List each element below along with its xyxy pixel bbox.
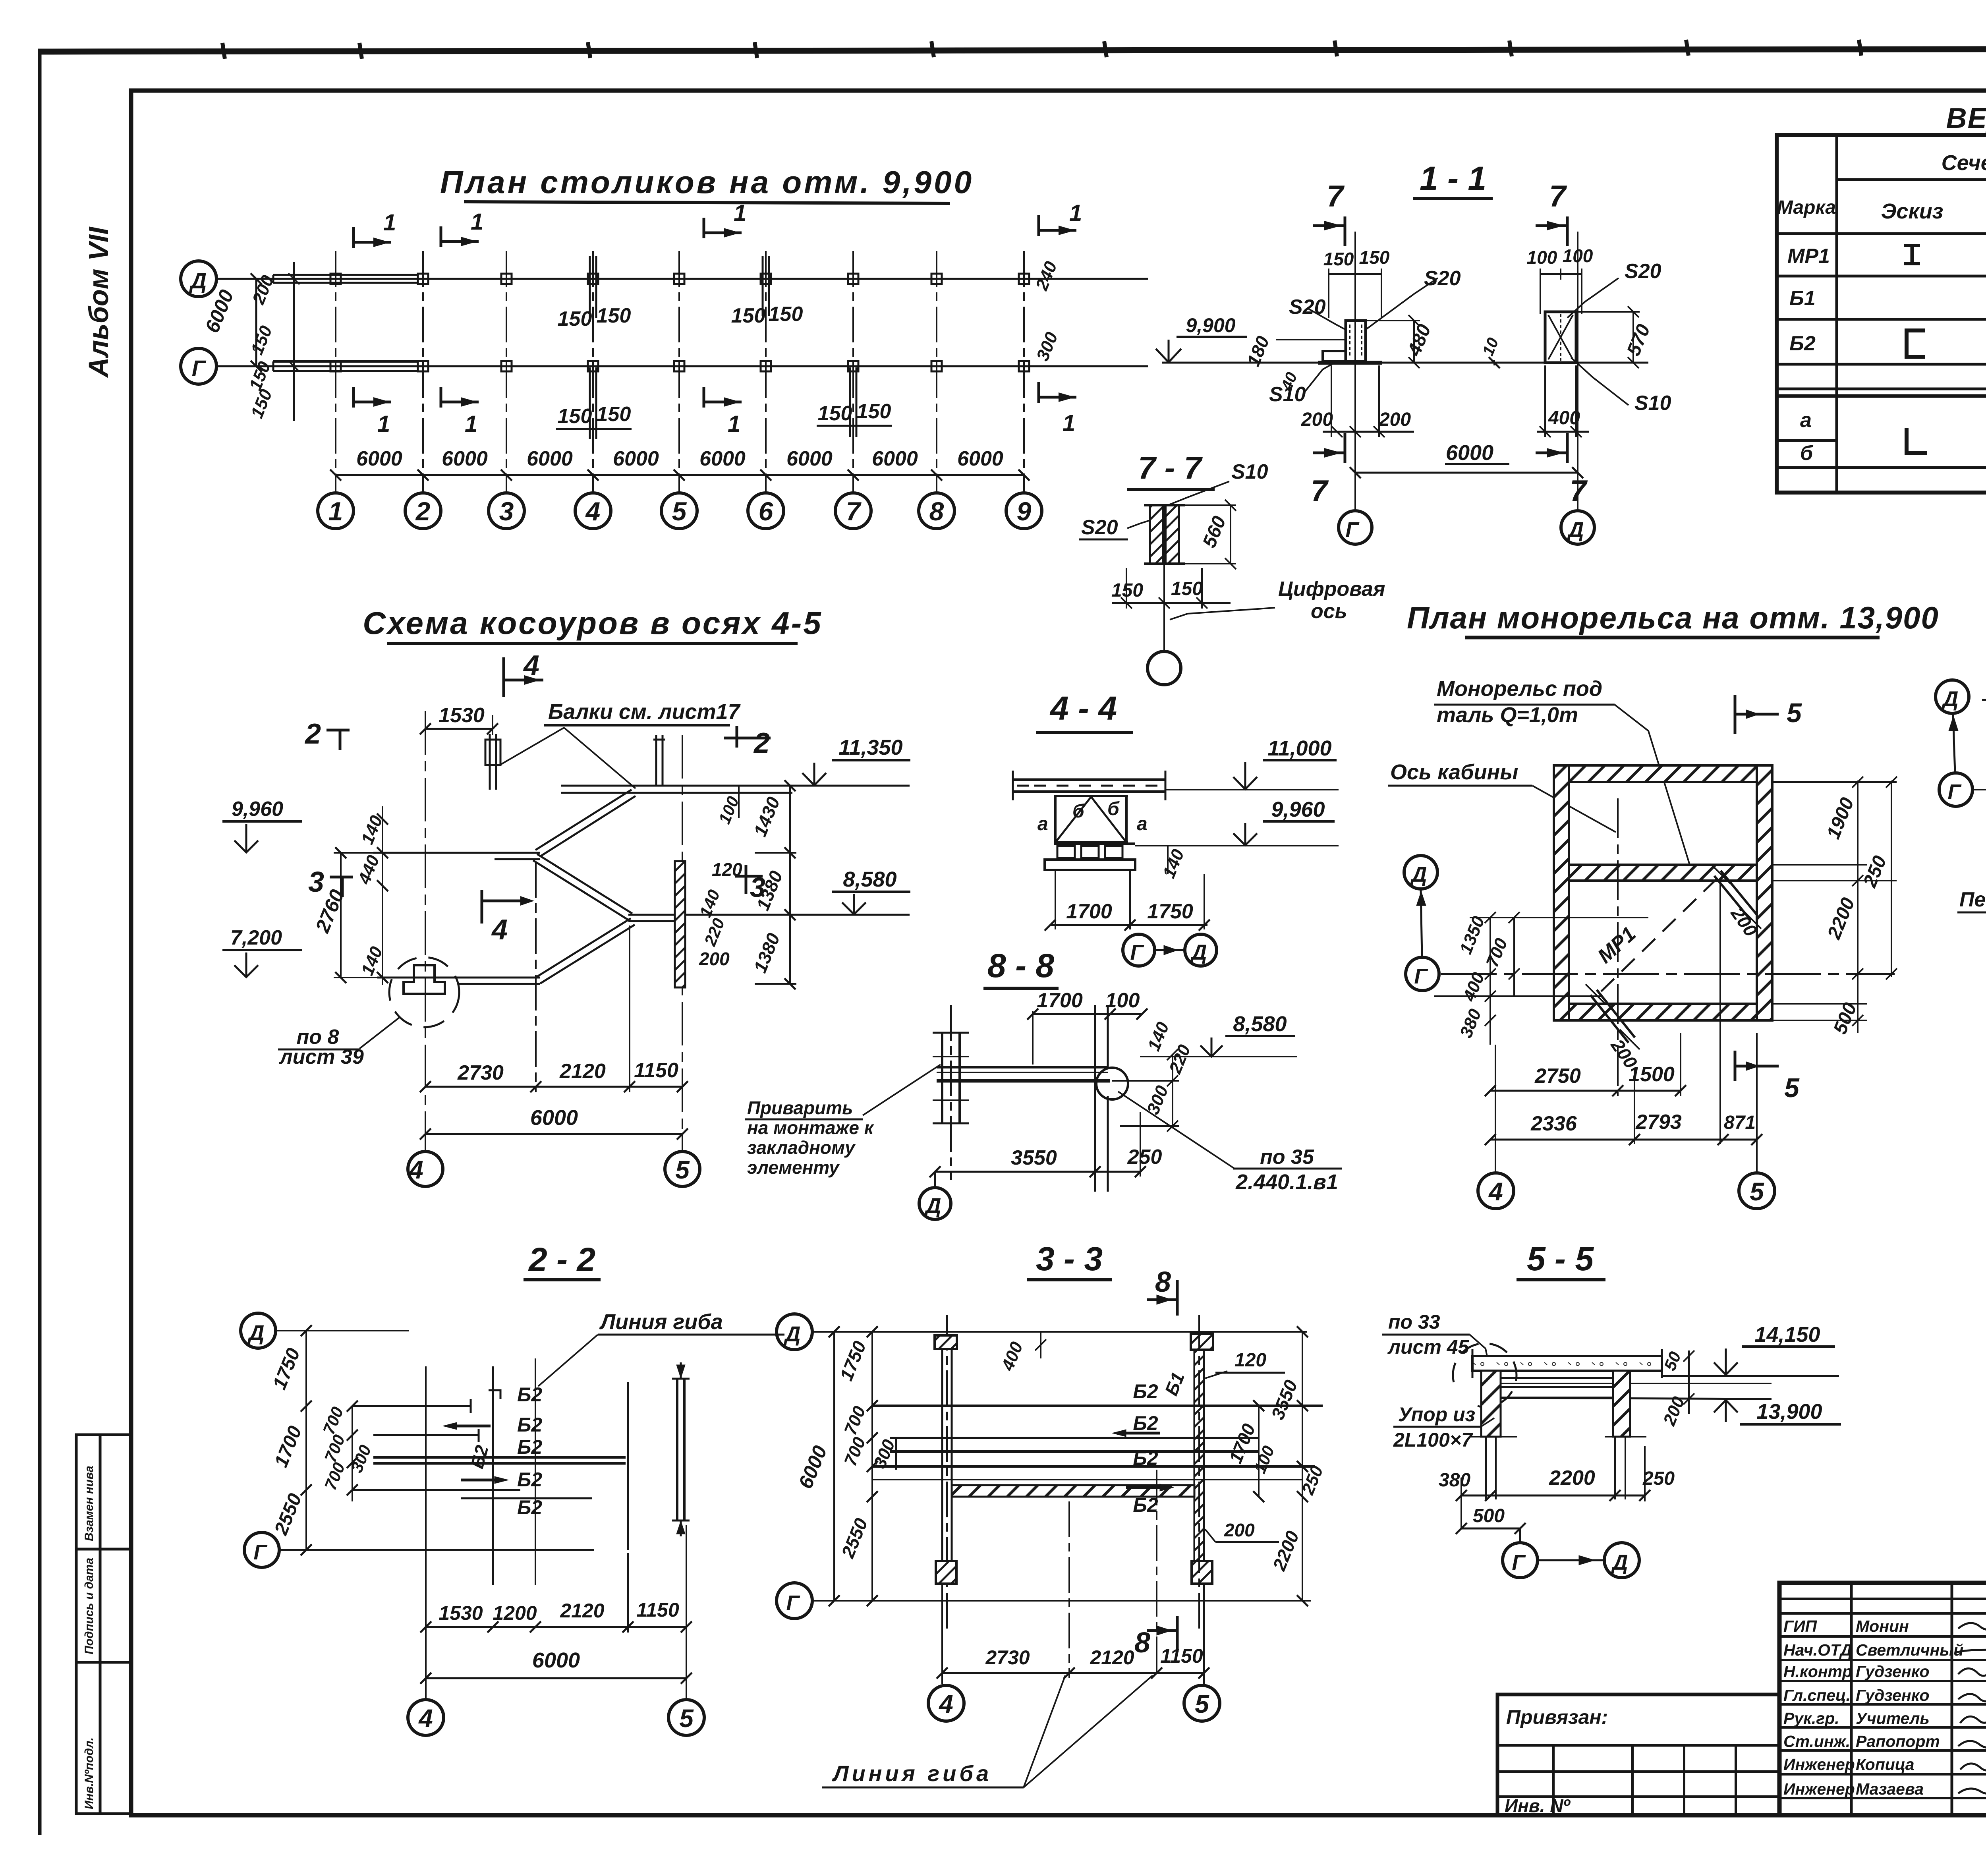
svg-text:3: 3 — [308, 866, 324, 898]
top dims 1700 100 — [1033, 1013, 1142, 1015]
svg-text:Д: Д — [1942, 687, 1959, 711]
svg-text:1: 1 — [383, 210, 396, 236]
svg-text:б: б — [1800, 442, 1814, 465]
svg-text:7: 7 — [846, 497, 862, 526]
svg-text:1750: 1750 — [1147, 900, 1193, 923]
angle glyph rows a/b — [1907, 428, 1927, 453]
leaders S20/S10 G — [1307, 308, 1346, 330]
svg-text:120: 120 — [1234, 1350, 1266, 1371]
flag 4 top — [502, 657, 505, 697]
svg-text:4: 4 — [938, 1690, 953, 1718]
svg-text:План монорельса на отм. 13,900: План монорельса на отм. 13,900 — [1407, 600, 1939, 635]
svg-text:150: 150 — [597, 403, 631, 426]
G column section — [1346, 321, 1366, 361]
svg-text:S20: S20 — [1625, 260, 1661, 283]
bottom dim row 2 — [1490, 1139, 1757, 1141]
svg-text:2L100×7: 2L100×7 — [1393, 1429, 1473, 1451]
svg-text:Д: Д — [924, 1194, 941, 1218]
left stamp boxes — [76, 1435, 131, 1814]
180 dim left of G col — [1276, 339, 1346, 340]
landing 9960 — [373, 852, 540, 854]
left dim chain — [871, 1332, 873, 1601]
elevation 11000 — [1263, 759, 1337, 761]
8 cut flag bottom — [1176, 1616, 1179, 1652]
small dim ticks left of col1 — [293, 262, 295, 421]
svg-text:200: 200 — [1224, 1520, 1255, 1540]
svg-text:Линия гиба: Линия гиба — [832, 1761, 992, 1786]
bottom dims — [426, 1626, 686, 1628]
col G circle — [1339, 511, 1372, 544]
svg-text:2120: 2120 — [1090, 1646, 1134, 1669]
axis D bubble — [934, 1172, 936, 1187]
privyazan block — [1497, 1694, 1779, 1815]
left column — [941, 1349, 943, 1584]
svg-text:11,350: 11,350 — [838, 736, 902, 759]
svg-text:5: 5 — [1750, 1177, 1764, 1206]
bottom dims — [425, 1086, 682, 1088]
petlya leader — [1957, 912, 1986, 914]
right dims 1700/100 — [1258, 1406, 1260, 1497]
200/200 dim under G col — [1323, 431, 1414, 433]
right dim chain 3550/250/2200 — [1302, 1332, 1303, 1601]
elevation 13,900 — [1740, 1423, 1841, 1426]
left dim chain 140/440/140 — [382, 806, 383, 985]
horizontal extension lines right — [1772, 781, 1897, 783]
svg-text:5: 5 — [1787, 698, 1802, 728]
beam B2 no4 — [352, 1489, 520, 1491]
svg-text:6000: 6000 — [613, 447, 659, 470]
svg-text:1530: 1530 — [439, 704, 485, 727]
shaft walls hatched — [1554, 765, 1772, 782]
axis 5 bubble — [665, 1151, 700, 1186]
svg-text:Светличный: Светличный — [1856, 1641, 1963, 1659]
axis G bubble + line — [244, 1532, 279, 1567]
svg-text:150: 150 — [1323, 249, 1354, 269]
stringer diagonal lower — [536, 918, 631, 977]
brace at col7 axis G — [849, 367, 851, 437]
svg-text:Г: Г — [192, 355, 207, 381]
axis5 column hatched — [675, 861, 685, 987]
svg-text:8: 8 — [1155, 1266, 1171, 1298]
svg-text:400: 400 — [1548, 408, 1580, 429]
right dim chain — [789, 786, 791, 984]
label monorel pod tal — [1434, 704, 1615, 706]
svg-text:4 - 4: 4 - 4 — [1049, 690, 1117, 727]
svg-text:4: 4 — [408, 1155, 423, 1184]
axis 4 vertical — [425, 711, 426, 1151]
svg-text:7: 7 — [1570, 474, 1588, 508]
svg-text:8,580: 8,580 — [1233, 1012, 1287, 1036]
dims above G col — [1329, 273, 1381, 275]
structure verticals — [425, 1366, 427, 1585]
400 dim at left col — [1040, 1332, 1041, 1358]
svg-text:Инженер: Инженер — [1783, 1755, 1855, 1774]
svg-text:2200: 2200 — [1549, 1466, 1595, 1490]
svg-text:2: 2 — [753, 727, 770, 759]
svg-text:Д: Д — [1410, 863, 1427, 887]
slab with concrete — [1472, 1356, 1662, 1371]
svg-text:б: б — [1107, 798, 1120, 819]
top landing beam — [561, 785, 910, 787]
axis 4 bubble — [1495, 1045, 1496, 1173]
svg-text:7,200: 7,200 — [230, 926, 282, 949]
150 150 dim bottom — [1112, 602, 1231, 604]
svg-text:1700: 1700 — [1066, 900, 1112, 923]
svg-text:1150: 1150 — [634, 1059, 678, 1082]
svg-text:ВЕДОМОСТЬ ЭЛЕМЕНТОВ: ВЕДОМОСТЬ ЭЛЕМЕНТОВ — [1946, 102, 1986, 134]
svg-text:2120: 2120 — [560, 1600, 604, 1622]
hanger rod right — [655, 735, 657, 786]
leader to po35 — [1118, 1092, 1234, 1169]
main floor line — [1162, 362, 1648, 364]
right column B1 — [1194, 1350, 1196, 1584]
svg-text:а: а — [1037, 813, 1048, 835]
svg-text:элементу: элементу — [747, 1157, 840, 1178]
liniya giba leaders — [822, 1787, 1024, 1789]
monorail beam stub bottom left (double) — [1597, 990, 1635, 1037]
upor leader — [1393, 1426, 1481, 1428]
dim 1530 — [425, 728, 493, 730]
480 dim right of G col — [1413, 321, 1415, 363]
svg-text:6: 6 — [759, 497, 774, 526]
svg-text:Инв.Nºподл.: Инв.Nºподл. — [83, 1737, 96, 1809]
svg-text:Д: Д — [1567, 518, 1584, 542]
svg-text:Б2: Б2 — [517, 1383, 542, 1406]
beam below slab — [1486, 1377, 1628, 1379]
svg-text:Г: Г — [1947, 780, 1962, 804]
svg-text:Н.контр: Н.контр — [1783, 1662, 1852, 1681]
section 1-1 — [1156, 199, 1648, 544]
svg-text:250: 250 — [1127, 1146, 1162, 1169]
svg-text:Ось кабины: Ось кабины — [1390, 760, 1518, 784]
svg-text:ось: ось — [1311, 600, 1347, 623]
stringer diagonal middle — [537, 854, 632, 914]
svg-text:7: 7 — [1549, 180, 1567, 213]
elevation 8580 — [832, 891, 910, 893]
svg-text:Г: Г — [1130, 941, 1144, 964]
svg-text:9,960: 9,960 — [1271, 798, 1325, 821]
140 dim — [1167, 846, 1169, 874]
400 dim under D col — [1537, 431, 1589, 433]
svg-text:Д: Д — [784, 1322, 801, 1346]
svg-text:7: 7 — [1327, 180, 1345, 213]
MP1 dashed diagonal — [1601, 874, 1722, 991]
svg-text:1150: 1150 — [636, 1599, 679, 1621]
svg-text:4: 4 — [585, 497, 601, 526]
svg-text:6000: 6000 — [442, 447, 488, 470]
svg-text:2: 2 — [415, 497, 431, 526]
svg-text:Марка: Марка — [1777, 197, 1836, 218]
svg-text:150: 150 — [1111, 580, 1143, 601]
svg-text:2336: 2336 — [1530, 1112, 1577, 1135]
legs down to dim — [1055, 870, 1056, 929]
svg-text:1: 1 — [734, 200, 746, 226]
flag 2 left — [326, 729, 350, 732]
svg-text:S20: S20 — [1081, 516, 1118, 539]
svg-text:Г: Г — [1512, 1551, 1526, 1575]
label os kabiny underline+leader — [1388, 785, 1532, 787]
svg-text:6000: 6000 — [1446, 441, 1493, 465]
cab axis vertical dash-dot — [1617, 798, 1619, 1096]
svg-text:5: 5 — [1784, 1073, 1800, 1103]
bubbles 4 5 — [928, 1685, 964, 1721]
po8 leader — [359, 1018, 399, 1049]
svg-text:6000: 6000 — [532, 1648, 580, 1672]
dims above D col — [1540, 273, 1582, 275]
svg-text:Балки см. лист17: Балки см. лист17 — [548, 700, 741, 724]
svg-text:Б2: Б2 — [1789, 332, 1816, 355]
privarit leader — [863, 1065, 941, 1115]
svg-text:Рапопорт: Рапопорт — [1856, 1732, 1940, 1750]
svg-text:Нач.ОТД: Нач.ОТД — [1783, 1641, 1852, 1659]
svg-text:7 - 7: 7 - 7 — [1138, 450, 1203, 485]
I-beam glyph row MP1 — [1904, 244, 1920, 247]
svg-text:3: 3 — [499, 497, 514, 526]
svg-text:Эскиз: Эскиз — [1881, 199, 1943, 223]
svg-text:1500: 1500 — [1629, 1063, 1675, 1086]
column grid lines — [335, 251, 336, 475]
plan title underline — [464, 202, 950, 203]
stringer diagonal upper — [535, 790, 632, 850]
svg-text:150: 150 — [597, 304, 631, 327]
svg-text:Сечение: Сечение — [1942, 151, 1986, 175]
svg-text:Д: Д — [189, 268, 207, 293]
flag 3 right — [745, 865, 748, 894]
svg-text:11,000: 11,000 — [1267, 736, 1331, 760]
fold tick marks on top border — [222, 43, 225, 59]
balki leader lines — [500, 728, 564, 765]
svg-text:2730: 2730 — [985, 1646, 1030, 1669]
section cut flags bottom — [354, 401, 391, 404]
svg-text:100: 100 — [1563, 245, 1593, 266]
svg-text:а: а — [1800, 409, 1812, 432]
svg-text:1: 1 — [328, 497, 343, 526]
svg-text:Взамен нива: Взамен нива — [83, 1466, 96, 1541]
right small dims 50/200 — [1688, 1350, 1690, 1414]
channel pair detail — [1150, 505, 1163, 564]
svg-text:S10: S10 — [1231, 460, 1268, 483]
outer border left — [38, 51, 42, 1835]
svg-text:Б2: Б2 — [517, 1414, 542, 1436]
svg-text:3 - 3: 3 - 3 — [1036, 1240, 1103, 1277]
svg-text:1: 1 — [471, 209, 483, 235]
axis 5 bubble — [1756, 1033, 1758, 1173]
po 33 list 45 label — [1382, 1334, 1470, 1336]
axis bubbles D G — [1936, 680, 1969, 713]
weld detail circle — [1096, 1068, 1128, 1099]
svg-text:2120: 2120 — [559, 1060, 606, 1083]
svg-text:Альбом VII: Альбом VII — [83, 226, 114, 378]
svg-text:Г: Г — [1345, 518, 1360, 542]
axis line down to bubble — [1163, 564, 1165, 651]
svg-text:таль Q=1,0т: таль Q=1,0т — [1437, 703, 1578, 727]
2760 dim — [340, 853, 342, 978]
svg-text:150: 150 — [1171, 578, 1203, 599]
svg-text:4: 4 — [491, 914, 508, 946]
bubbles G D — [1519, 1528, 1521, 1543]
bottom dims 3550 250 — [935, 1171, 1140, 1173]
flag 2 right — [736, 726, 738, 748]
col D circle — [1561, 511, 1594, 544]
svg-text:9,900: 9,900 — [1186, 314, 1235, 336]
560 dim right — [1230, 505, 1231, 564]
elevation 9960 — [1263, 820, 1335, 823]
svg-text:8: 8 — [929, 497, 944, 526]
svg-text:Приварить: Приварить — [747, 1097, 853, 1118]
monorail beam stub top right (double) — [1721, 871, 1757, 915]
svg-text:150: 150 — [558, 405, 592, 428]
bottom dims 380/2200/250 — [1461, 1495, 1645, 1497]
signatures squiggles — [1956, 1617, 1986, 1794]
svg-text:2 - 2: 2 - 2 — [528, 1241, 595, 1278]
svg-text:Инв. Nº: Инв. Nº — [1505, 1795, 1571, 1816]
bottom dim row 1 — [1490, 1090, 1681, 1092]
leaders S20/S10 D — [1567, 278, 1619, 318]
svg-text:8: 8 — [1134, 1627, 1150, 1659]
svg-text:871: 871 — [1724, 1112, 1756, 1133]
left column — [941, 1033, 943, 1123]
main beam — [937, 1066, 1108, 1068]
arrows — [457, 1425, 491, 1428]
svg-text:6000: 6000 — [872, 447, 918, 470]
elevation 11350 — [832, 759, 910, 761]
svg-text:3550: 3550 — [1011, 1146, 1057, 1169]
hanging rod — [1094, 1005, 1096, 1192]
right dim verticals — [1857, 781, 1858, 1033]
200 leader — [1215, 1541, 1279, 1543]
rotated left dims — [201, 259, 1062, 421]
inner vertical line — [1719, 881, 1721, 1144]
10 dim left of D col — [1493, 360, 1495, 365]
svg-text:МР1: МР1 — [1787, 245, 1830, 268]
svg-text:1: 1 — [1063, 410, 1075, 436]
svg-text:1: 1 — [377, 411, 390, 437]
column squares row G — [330, 361, 341, 371]
svg-text:Г: Г — [253, 1540, 268, 1564]
7 cut marks — [1344, 216, 1347, 246]
axis D bubble/line — [777, 1314, 812, 1350]
svg-text:5: 5 — [1195, 1690, 1209, 1718]
truss — [1054, 796, 1057, 842]
svg-text:Подпись и дата: Подпись и дата — [83, 1558, 96, 1654]
small dims right — [1172, 1055, 1173, 1126]
axis D bubble left — [1404, 856, 1437, 889]
axis D line — [216, 278, 1148, 280]
svg-text:6000: 6000 — [530, 1106, 578, 1130]
svg-text:5: 5 — [679, 1704, 694, 1733]
svg-text:7: 7 — [1311, 474, 1329, 508]
svg-text:9: 9 — [1017, 497, 1032, 526]
bearing assembly — [1054, 842, 1135, 845]
D column section — [1545, 312, 1576, 363]
svg-text:2: 2 — [304, 718, 321, 750]
elevation 7,200 left — [222, 949, 302, 951]
svg-text:1 - 1: 1 - 1 — [1420, 160, 1486, 197]
axis G bubble left — [1406, 957, 1439, 991]
beam B2 no1 — [352, 1405, 471, 1407]
slab — [1013, 779, 1165, 781]
svg-text:6000: 6000 — [527, 447, 573, 470]
120 label line — [1215, 1372, 1285, 1374]
S10 leader — [1168, 481, 1229, 505]
svg-text:Копица: Копица — [1856, 1755, 1915, 1774]
col D axis vertical — [1577, 232, 1578, 511]
svg-text:б: б — [1072, 801, 1085, 822]
svg-text:Учитель: Учитель — [1856, 1709, 1930, 1727]
svg-text:8,580: 8,580 — [843, 867, 896, 891]
left dims — [1470, 917, 1648, 918]
beam B2 no2 — [373, 1434, 479, 1436]
svg-text:Упор из: Упор из — [1398, 1403, 1475, 1426]
middle hatched beam — [1569, 865, 1757, 881]
svg-text:100: 100 — [1527, 247, 1557, 268]
columns hatched — [1481, 1371, 1501, 1437]
svg-text:на монтаже к: на монтаже к — [747, 1117, 875, 1138]
left dim line — [255, 279, 257, 366]
svg-text:Б2: Б2 — [1133, 1494, 1158, 1516]
svg-text:Схема косоуров в осях 4-5: Схема косоуров в осях 4-5 — [363, 605, 823, 641]
svg-text:150: 150 — [818, 402, 852, 425]
svg-text:8 - 8: 8 - 8 — [987, 947, 1054, 984]
svg-text:4: 4 — [418, 1704, 433, 1733]
svg-text:Б2: Б2 — [1133, 1380, 1158, 1403]
svg-text:Гудзенко: Гудзенко — [1856, 1662, 1930, 1681]
svg-text:200: 200 — [1301, 409, 1333, 430]
svg-text:1700: 1700 — [1037, 989, 1083, 1012]
svg-text:Монорельс под: Монорельс под — [1437, 677, 1602, 701]
arrows — [1126, 1432, 1160, 1435]
axis G bubble/line — [777, 1583, 812, 1619]
beam B2 no3 double — [373, 1456, 626, 1459]
svg-text:150: 150 — [1359, 247, 1390, 268]
svg-text:Б2: Б2 — [1133, 1412, 1158, 1434]
svg-text:Б2: Б2 — [517, 1436, 542, 1458]
svg-text:Б2: Б2 — [517, 1496, 542, 1519]
svg-text:200: 200 — [699, 949, 730, 969]
svg-text:Ст.инж.: Ст.инж. — [1783, 1732, 1850, 1750]
axis G circle — [181, 348, 216, 384]
svg-text:6000: 6000 — [957, 447, 1003, 470]
svg-text:150: 150 — [857, 400, 891, 423]
left dim chain — [305, 1331, 307, 1550]
column squares row D — [330, 274, 341, 284]
svg-text:2793: 2793 — [1635, 1111, 1682, 1134]
svg-text:5: 5 — [672, 497, 687, 526]
svg-text:Д: Д — [1190, 941, 1207, 964]
brace at col4 axis D — [589, 256, 591, 318]
svg-text:1150: 1150 — [1160, 1645, 1203, 1667]
tsifrovaya os leader — [1170, 608, 1275, 620]
svg-text:150: 150 — [558, 307, 592, 330]
axis D circle — [181, 261, 216, 297]
svg-text:150: 150 — [769, 303, 803, 326]
channel glyph rows B1/B2 — [1907, 330, 1925, 357]
left signature table verticals — [1850, 1583, 1853, 1815]
axis 4 bubble — [408, 1151, 443, 1186]
axis 5 vertical — [682, 735, 683, 1151]
brace at col6 axis D — [762, 256, 764, 316]
svg-text:5 - 5: 5 - 5 — [1527, 1240, 1594, 1277]
B2 beams — [872, 1405, 1323, 1407]
svg-text:План столиков на отм. 9,900: План столиков на отм. 9,900 — [440, 164, 974, 200]
svg-text:Рук.гр.: Рук.гр. — [1783, 1709, 1839, 1727]
bottom dim line — [336, 474, 1024, 476]
col G axis vertical — [1354, 232, 1356, 511]
svg-text:2750: 2750 — [1534, 1065, 1581, 1088]
svg-text:250: 250 — [1642, 1468, 1675, 1489]
svg-text:S20: S20 — [1289, 296, 1326, 319]
section cut flags top — [354, 241, 391, 244]
